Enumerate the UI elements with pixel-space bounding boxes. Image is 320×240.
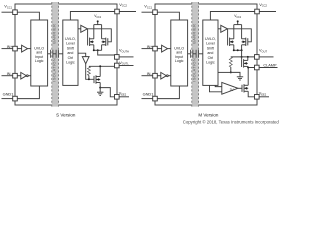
output FET QN (M) channel bar [245, 38, 247, 46]
svg-text:IN+: IN+ [147, 44, 154, 49]
svg-text:BARRIER: BARRIER [192, 24, 197, 44]
junction dot VOUTL (S) [99, 65, 101, 67]
pulldown FET Q3 (S) source stub [96, 82, 100, 84]
wire buffer to UVLO box (S) [28, 48, 31, 50]
wire pulldown buffer to gate (S) [86, 64, 94, 80]
QN connector verticals (S) [101, 25, 103, 51]
capacitor C1 barrier (S) [50, 50, 53, 58]
svg-text:BARRIER: BARRIER [52, 24, 57, 44]
wire VOUTL line (S) [89, 65, 115, 67]
clamp FET Q4 (M) source stub [244, 90, 248, 92]
wire between barrier capacitors (S) [53, 53, 56, 55]
capacitor C1 barrier (M) [190, 50, 193, 58]
internal VCC2 supply bar (S) [94, 24, 102, 26]
buffer IN+ (S) [22, 45, 28, 52]
wire logic box to comparator input+ (M) [215, 85, 222, 86]
block UVLO Level Shift and Ctrl Logic (M) [203, 20, 218, 85]
wire left gate drop (S) [87, 29, 89, 39]
pin VCC1 (M) [142, 10, 158, 15]
svg-text:M Version: M Version [198, 112, 219, 117]
wire IN- to inverter (M) [157, 75, 161, 77]
svg-text:Logic: Logic [66, 61, 75, 65]
pin VCC2 (S) [115, 9, 136, 14]
output FET QN (M) body stub with arrow [242, 40, 246, 43]
wire GND1 to UVLO box (S) [17, 86, 39, 99]
output FET QP (S) channel bar [89, 38, 91, 46]
resistor pulldown gate (S) [87, 66, 90, 75]
output FET QP (M) channel bar [229, 38, 231, 46]
output FET QN (M) source stub [242, 44, 246, 46]
wire buffer to UVLO box (M) [168, 48, 171, 50]
svg-text:Level: Level [66, 42, 75, 46]
pulldown FET Q3 (S) channel bar [95, 75, 97, 83]
output FET QP (S) gate bar [87, 38, 89, 45]
wire UVLO box to capacitor (S) [48, 53, 51, 55]
wire UVLO box to capacitor (M) [188, 53, 191, 55]
capacitor C2 barrier (M) [196, 50, 199, 58]
svg-text:IN-: IN- [7, 71, 13, 76]
junction dot resistor-gate (S) [88, 78, 90, 80]
pin IN- (S) [2, 73, 18, 78]
wire resistor to gate lead (S) [88, 76, 90, 80]
wire VOUT row to pulldown gate (M) [241, 57, 243, 60]
isolation barrier strip (S version) [52, 2, 59, 107]
wire inverter to UVLO box (M) [168, 75, 171, 77]
wire left gate drop (M) [227, 29, 229, 39]
reference (M) ground symbol [237, 77, 243, 80]
wire output step down to VOUTH row (S) [98, 50, 115, 55]
pin VEE2 (S) [115, 95, 130, 100]
clamp FET Q4 (M) drain stub [244, 84, 248, 86]
wire clamp node to logic box (M) [218, 71, 231, 73]
svg-text:ISOLATION: ISOLATION [52, 58, 57, 82]
wire logic box to pulldown buffer (S) [78, 53, 86, 56]
pulldown source (S) ground symbol [97, 92, 103, 95]
buffer IN+ (M) [162, 45, 168, 52]
wire inverter to UVLO box (S) [28, 75, 31, 77]
svg-text:Shift: Shift [207, 46, 214, 50]
pulldown FET Q3 (S) body stub with arrow [96, 78, 100, 81]
Q3 drain connector to VOUTL line (S) [99, 66, 101, 76]
wire IN+ to buffer (S) [17, 48, 21, 50]
pulldown FET Q3 (M) drain stub [244, 59, 248, 61]
wire GND1 to UVLO box (M) [157, 86, 179, 99]
Q4 source connector to VEE2 (M) [248, 91, 254, 97]
pin CLAMP (M) [255, 65, 278, 70]
wire logic box to comparator input- (M) [210, 85, 222, 91]
QN connector verticals (M) [241, 25, 243, 51]
junction dot output left (S) [93, 49, 95, 51]
svg-text:UVLO,: UVLO, [205, 37, 216, 41]
internal VCC2 supply bar (M) [234, 24, 242, 26]
pin VEE2 (M) [255, 95, 270, 100]
Q3 drain connector to VOUT row (M) [247, 57, 249, 61]
pulldown FET Q3 (S) drain stub [96, 76, 100, 78]
pin IN- (M) [142, 73, 158, 78]
junction dot output left (M) [233, 49, 235, 51]
clamp FET Q4 (M) body stub with arrow [244, 87, 248, 90]
pulldown FET Q3 (S) gate bar [93, 76, 95, 83]
IC boundary rectangle (S version) [15, 4, 117, 105]
driver buffer (M) [221, 25, 228, 32]
wire gate drive (S) [87, 29, 111, 42]
wire VCC1 to UVLO box (S) [17, 12, 39, 20]
svg-text:Shift: Shift [67, 46, 74, 50]
output FET QN (S) gate bar [107, 38, 109, 45]
svg-text:S Version: S Version [56, 112, 76, 117]
wire Q3 source to VEE2 (S) [100, 88, 114, 97]
wire resistor to clamp node (M) [230, 67, 232, 72]
Q4 drain connector to CLAMP row (M) [247, 68, 249, 86]
wire clamp node to reference ground (M) [231, 72, 240, 76]
clamp FET Q4 (M) gate bar [241, 85, 243, 92]
wire logic box to driver buffer (M) [218, 28, 221, 30]
junction dot Q3 drain at VOUT row (M) [247, 56, 249, 58]
output FET QP (M) source stub [230, 44, 234, 46]
QP connector verticals (M) [233, 25, 235, 51]
svg-text:and: and [207, 51, 213, 55]
wire capacitor to output logic box (M) [199, 53, 203, 55]
pin GND1 (S) [2, 96, 18, 101]
output FET QN (S) drain stub [102, 38, 106, 40]
wire IN- to inverter (S) [17, 75, 21, 77]
junction dot Q4 drain (M) [247, 67, 249, 69]
wire between barrier capacitors (M) [193, 53, 196, 55]
wire output foot line (S) [94, 49, 102, 51]
internal VCC2 tap dot (S) [97, 20, 99, 24]
junction dot VOUT row step (M) [241, 56, 243, 58]
svg-text:Level: Level [206, 42, 215, 46]
internal VCC2 tap dot (M) [237, 20, 239, 24]
wire gate drive (M) [227, 29, 251, 42]
pulldown FET Q3 (M) body stub with arrow [244, 62, 248, 65]
wire VCC1 to UVLO box (M) [157, 12, 179, 20]
block UVLO and Input Logic (M) [171, 20, 188, 86]
pin GND1 (M) [142, 96, 158, 101]
junction dot output center (M) [237, 49, 239, 51]
output FET QN (S) source stub [102, 44, 106, 46]
output FET QP (M) body stub with arrow [230, 40, 234, 43]
output FET QP (S) source stub [90, 44, 94, 46]
clamp FET Q4 (M) channel bar [243, 84, 245, 92]
svg-text:GND1: GND1 [3, 91, 14, 96]
wire VCC2 to logic box (S) [70, 12, 114, 21]
Q3 source connector to CLAMP row (M) [248, 66, 255, 67]
pin VCC2 (M) [255, 9, 276, 14]
output FET QN (M) drain stub [242, 38, 246, 40]
junction dot clamp node (M) [230, 71, 232, 73]
output FET QN (S) channel bar [105, 38, 107, 46]
pulldown buffer triangle (S) [82, 57, 89, 64]
output FET QP (S) drain stub [90, 38, 94, 40]
svg-text:CLAMP: CLAMP [263, 64, 277, 68]
driver buffer (S) [81, 25, 88, 32]
svg-text:UVLO,: UVLO, [65, 37, 76, 41]
svg-text:Copyright © 2018, Texas Instru: Copyright © 2018, Texas Instruments Inco… [183, 119, 280, 124]
isolation barrier strip (M version) [192, 2, 199, 107]
wire comparator to clamp FET gate (M) [238, 87, 242, 89]
wire VOUT row (M) [231, 56, 255, 58]
output FET QN (M) gate bar [247, 38, 249, 45]
block UVLO and Input Logic (S) [31, 20, 48, 86]
pin VCC1 (S) [2, 10, 18, 15]
QP connector verticals (S) [93, 25, 95, 51]
svg-text:GND1: GND1 [143, 91, 154, 96]
output FET QP (S) body stub with arrow [90, 40, 94, 43]
output FET QN (S) body stub with arrow [102, 40, 106, 43]
junction dot Q3 source (S) [99, 87, 101, 89]
pin VOUTH (S) [115, 55, 134, 60]
svg-text:Ctrl: Ctrl [208, 56, 214, 60]
capacitor C2 barrier (S) [56, 50, 59, 58]
junction dot output right foot (M) [241, 49, 243, 51]
pin VOUT (M) [255, 55, 274, 60]
Q3 source connector (S) [99, 83, 101, 89]
wire capacitor to output logic box (S) [59, 53, 63, 55]
wire IN+ to buffer (M) [157, 48, 161, 50]
pin IN+ (S) [2, 46, 18, 51]
output FET QP (M) gate bar [227, 38, 229, 45]
pin VOUTL (S) [115, 63, 134, 68]
pin IN+ (M) [142, 46, 158, 51]
svg-text:Logic: Logic [206, 61, 215, 65]
svg-text:IN+: IN+ [7, 44, 14, 49]
output FET QP (M) drain stub [230, 38, 234, 40]
inverter IN- (S) [21, 72, 28, 79]
junction dot output center (S) [97, 49, 99, 51]
wire logic box to driver buffer (S) [78, 28, 81, 30]
svg-text:Logic: Logic [175, 59, 184, 63]
inverter IN- (M) [161, 72, 168, 79]
wire output foot line (M) [234, 49, 242, 51]
wire VCC2 to logic box (M) [210, 12, 254, 21]
resistor clamp sense (M) [229, 57, 232, 67]
wire to ground symbol (S) [99, 88, 101, 92]
svg-text:Ctrl: Ctrl [68, 56, 74, 60]
IC boundary rectangle (M version) [155, 4, 257, 105]
pulldown FET Q3 (M) gate bar [241, 60, 243, 67]
pulldown FET Q3 (M) source stub [244, 65, 248, 67]
comparator 2V clamp (M) [222, 82, 238, 94]
wire step down conR to VOUT row (M) [241, 50, 243, 57]
svg-text:IN-: IN- [147, 71, 153, 76]
svg-text:ISOLATION: ISOLATION [192, 58, 197, 82]
svg-text:Logic: Logic [35, 59, 44, 63]
svg-text:and: and [67, 51, 73, 55]
pulldown FET Q3 (M) channel bar [243, 59, 245, 67]
block UVLO Level Shift and Ctrl Logic (S) [63, 20, 78, 85]
